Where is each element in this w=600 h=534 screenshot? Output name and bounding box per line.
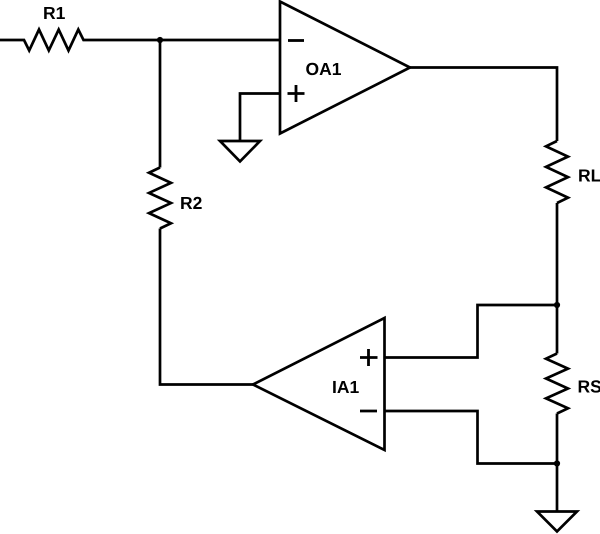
- svg-text:OA1: OA1: [306, 59, 342, 79]
- svg-text:IA1: IA1: [332, 377, 360, 397]
- svg-text:R2: R2: [180, 193, 203, 213]
- svg-text:RS: RS: [578, 377, 600, 397]
- svg-text:RL: RL: [578, 165, 600, 185]
- svg-text:R1: R1: [43, 3, 66, 23]
